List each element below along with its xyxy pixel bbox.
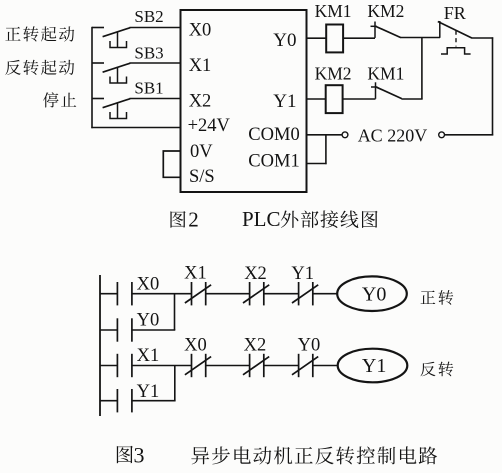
ladder NC contact X1 — [191, 282, 193, 305]
wire: X0 to X1 — [132, 293, 192, 295]
wire: KM1 coil to KM2 NC contact — [343, 37, 375, 39]
pushbutton SB2 blade — [103, 28, 131, 37]
AC supply terminal (right) — [439, 132, 445, 138]
wire: X1 to X2 — [206, 293, 250, 295]
svg-text:Y0: Y0 — [273, 30, 296, 51]
PLC controller box U1 — [181, 10, 307, 192]
wire: COM0 pin to AC terminal — [307, 134, 343, 136]
svg-text:2: 2 — [188, 208, 199, 232]
svg-text:Y1: Y1 — [291, 264, 314, 284]
svg-text:Y1: Y1 — [362, 355, 386, 377]
wire: X2 to Y1 — [264, 293, 299, 295]
svg-text:X2: X2 — [189, 92, 212, 112]
wire: KM2 coil to KM1 NC contact — [343, 98, 376, 100]
wire: junction to Y1 row — [421, 38, 423, 100]
wire: bus stub to SB2 — [92, 27, 104, 29]
svg-text:KM1: KM1 — [315, 1, 352, 21]
wire: X1 to X0 — [132, 365, 192, 367]
wire: SB2 to PLC input — [130, 27, 181, 29]
ladder NC contact X2 — [249, 282, 251, 305]
wire: X2 to Y0 — [264, 365, 299, 367]
wire: bus stub to SB3 — [92, 62, 104, 64]
wire: FR to right edge — [472, 37, 494, 39]
output coil Y1 — [338, 349, 408, 383]
wire: COM1 pin stub — [307, 163, 327, 165]
SB1 actuator cap — [110, 112, 127, 119]
pushbutton SB3 blade — [103, 63, 131, 72]
svg-text:0V: 0V — [190, 142, 213, 162]
wire: COM1 up to COM0 — [325, 135, 327, 164]
contactor coil KM1 — [326, 25, 343, 53]
SB3 actuator stem — [117, 67, 119, 83]
wire: Y1 branch to junction — [132, 400, 176, 402]
svg-text:Y0: Y0 — [137, 311, 160, 331]
svg-text:X2: X2 — [244, 264, 267, 284]
wire: rail to X0 contact — [100, 293, 117, 295]
wire: Y1 pin to KM2 coil — [307, 98, 326, 100]
svg-text:PLC: PLC — [242, 207, 281, 231]
wire: right edge down to AC terminal — [492, 37, 494, 135]
output coil Y0 — [337, 276, 407, 311]
label: reverse 反转 — [420, 362, 453, 377]
NC contact KM1 — [375, 82, 377, 99]
ladder NC contact X2 (rung2) — [249, 354, 251, 377]
svg-text:X0: X0 — [184, 335, 207, 355]
svg-text:Y0: Y0 — [298, 335, 321, 355]
wire: KM2 NC to FR — [401, 37, 441, 39]
SB2 actuator stem — [117, 31, 119, 47]
wire: branch2 junction up — [174, 366, 176, 401]
wire: Y0 to coil Y1 — [313, 365, 338, 367]
svg-text:+24V: +24V — [188, 116, 231, 136]
wire: rail to Y1 contact — [100, 400, 117, 402]
pushbutton SB1 blade — [103, 99, 131, 108]
svg-text:AC 220V: AC 220V — [358, 125, 428, 145]
label: reverse start 反转起动 — [5, 60, 74, 75]
ladder NC contact Y0 (rung2) — [298, 354, 300, 377]
wire: Y1 to coil Y0 — [313, 293, 337, 295]
wire: bus bottom to +24V pin — [91, 127, 180, 129]
ladder NO contact X1 (rung2) — [116, 354, 118, 377]
ladder NC contact Y1 — [298, 282, 300, 305]
wire: SB1 to PLC input — [130, 98, 181, 100]
wire: right AC terminal to edge — [445, 134, 494, 136]
svg-text:COM1: COM1 — [248, 152, 299, 172]
caption 图2 — [170, 211, 185, 228]
wire: X0 to X2 — [206, 365, 250, 367]
svg-text:SB1: SB1 — [134, 78, 163, 97]
svg-text:X0: X0 — [189, 20, 212, 40]
svg-text:SB2: SB2 — [134, 7, 163, 26]
wire: SB3 to PLC input — [130, 62, 181, 64]
svg-text:X0: X0 — [137, 274, 160, 294]
svg-text:Y1: Y1 — [137, 382, 160, 402]
ladder NO contact X0 — [116, 282, 118, 305]
wire: branch junction up — [174, 294, 176, 330]
svg-text:Y0: Y0 — [362, 284, 386, 306]
svg-text:S/S: S/S — [189, 167, 215, 187]
wire: left vertical bus for buttons — [91, 27, 93, 128]
svg-text:X1: X1 — [137, 346, 160, 366]
wire: Y0 branch to junction — [132, 329, 175, 331]
svg-text:COM0: COM0 — [248, 125, 299, 145]
caption 异步电动机正反转控制电路 — [191, 446, 437, 464]
svg-text:FR: FR — [444, 3, 466, 23]
label: forward 正转 — [421, 290, 454, 305]
ladder NO contact Y1 (seal-in) — [116, 389, 118, 412]
label: stop 停止 — [43, 92, 76, 107]
wire: bus stub to SB1 — [92, 98, 104, 100]
AC supply terminal (left) — [342, 132, 348, 138]
svg-text:SB3: SB3 — [134, 44, 163, 63]
jumper loop between 0V and S/S — [163, 151, 180, 177]
SB3 actuator cap — [110, 77, 127, 84]
svg-text:KM2: KM2 — [315, 63, 352, 83]
svg-text:KM2: KM2 — [367, 1, 404, 21]
svg-text:X1: X1 — [184, 264, 207, 284]
ladder NC contact X0 (rung2) — [191, 354, 193, 377]
ladder NO contact Y0 (seal-in) — [116, 318, 118, 341]
wire: rail to X1 contact — [100, 365, 117, 367]
label: forward start 正转起动 — [5, 26, 74, 41]
SB2 actuator cap — [110, 41, 127, 48]
ladder left power rail — [99, 275, 101, 416]
NC contact KM2 — [374, 22, 376, 38]
svg-text:3: 3 — [134, 443, 145, 468]
wire: Y0 pin to KM1 coil — [307, 37, 327, 39]
svg-text:Y1: Y1 — [273, 91, 296, 112]
wire: KM1 NC to junction — [402, 98, 423, 100]
caption 图3 — [117, 446, 133, 464]
contactor coil KM2 — [326, 85, 343, 113]
SB1 actuator stem — [117, 102, 119, 118]
wire: rail to Y0 contact — [100, 329, 117, 331]
svg-text:X1: X1 — [189, 56, 212, 76]
caption 外部接线图 — [281, 210, 378, 228]
svg-text:KM1: KM1 — [367, 63, 404, 83]
svg-text:X2: X2 — [244, 335, 267, 355]
